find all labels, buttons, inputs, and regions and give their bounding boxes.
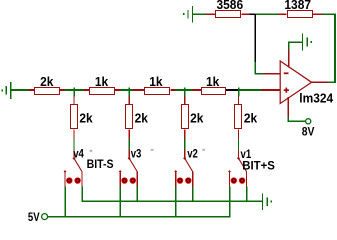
- resistor 1k (third): [201, 87, 226, 95]
- artifact mark near v3: [151, 149, 154, 151]
- ground symbol (at op-amp V+): [302, 34, 312, 51]
- artifact mark near v2: [202, 149, 205, 151]
- switch v1 contact dots: [231, 177, 246, 183]
- svg-text:1k: 1k: [95, 75, 108, 90]
- wire R-1k3 to node D (black): [226, 89, 239, 91]
- svg-text:1k: 1k: [149, 75, 162, 90]
- op-amp minus sign: [284, 72, 289, 74]
- svg-text:BIT-S: BIT-S: [87, 158, 114, 171]
- svg-text:5V: 5V: [28, 211, 40, 223]
- resistor 2k (branch v3): [125, 104, 133, 129]
- wire switch v4 left post down: [64, 187, 66, 218]
- junction node C (green stub): [184, 87, 186, 96]
- wire feedback to op-amp output: [312, 81, 336, 83]
- wire to op-amp inverting input: [255, 73, 280, 75]
- junction node B (green stub): [128, 87, 130, 96]
- switch v3 lever and pivot: [119, 157, 137, 173]
- wire switch v3 right post down: [136, 187, 138, 202]
- switch v4 contact dots: [66, 177, 81, 183]
- wire node F down (inverting input net): [254, 14, 256, 74]
- wire switch v2 right post down: [192, 187, 194, 202]
- resistor 2k (series): [34, 87, 60, 95]
- resistor 1k (first): [89, 87, 115, 95]
- wire switch v3 left post down: [119, 187, 121, 218]
- resistor 2k (branch v4): [70, 104, 78, 129]
- op-amp U1 lm324 triangle: [280, 61, 311, 104]
- wire node F to R-1387: [255, 13, 287, 15]
- op-amp V- pin wire: [288, 97, 306, 122]
- wire ground to R-2k: [11, 89, 34, 91]
- wire node A down to branch resistor: [73, 97, 74, 105]
- switch v4 contact posts: [64, 172, 82, 187]
- wire R-3586 to node F: [241, 13, 255, 15]
- resistor 1387: [287, 10, 313, 18]
- artifact mark near v4: [90, 150, 93, 152]
- wire branch resistor to switch v4: [73, 129, 74, 157]
- switch v2 contact dots: [177, 177, 192, 183]
- wire switch v1 right post down: [246, 187, 248, 202]
- svg-text:3586: 3586: [216, 0, 243, 12]
- switch v2 contact posts: [175, 172, 193, 187]
- svg-text:2k: 2k: [40, 75, 53, 90]
- port 8V terminal circle: [306, 119, 311, 124]
- ground symbol (top left): [183, 6, 193, 23]
- wire ground to R-3586: [193, 13, 215, 15]
- wire branch resistor to switch v3: [129, 129, 130, 157]
- wire branch resistor to switch v1: [238, 129, 239, 157]
- wire branch resistor to switch v2: [184, 129, 185, 157]
- resistor 3586: [215, 10, 241, 18]
- wire R-1387 to feedback corner: [313, 13, 336, 15]
- svg-text:2k: 2k: [190, 111, 203, 126]
- svg-text:BIT+S: BIT+S: [242, 159, 275, 172]
- junction node A (green stub): [73, 87, 75, 96]
- switch v3 contact dots: [121, 177, 136, 183]
- svg-text:v4: v4: [73, 148, 84, 161]
- switch v1 lever and pivot: [228, 157, 246, 173]
- wire GND bus (right contacts): [81, 201, 262, 203]
- wire switch v4 right post down: [81, 187, 83, 202]
- svg-text:2k: 2k: [244, 111, 257, 126]
- svg-text:v2: v2: [187, 148, 198, 161]
- wire switch v2 left post down: [175, 187, 177, 218]
- switch v3 contact posts: [120, 172, 138, 187]
- junction node D (green stub): [238, 87, 240, 96]
- ground symbol (left of rail): [1, 82, 11, 99]
- svg-text:8V: 8V: [302, 126, 315, 139]
- wire R-2k to node A: [60, 89, 89, 91]
- wire node C down to branch resistor: [184, 97, 185, 105]
- resistor 1k (second): [144, 87, 170, 95]
- resistor 2k (branch v1): [234, 104, 242, 129]
- switch v1 contact posts: [229, 172, 247, 187]
- svg-text:v3: v3: [131, 148, 142, 161]
- wire node D down to branch resistor: [238, 97, 239, 105]
- resistor 2k (branch v2): [181, 104, 189, 129]
- wire ladder to op-amp non-inverting input: [239, 89, 280, 91]
- svg-text:1k: 1k: [206, 75, 219, 90]
- wire 5V bus: [48, 216, 230, 218]
- op-amp plus sign: [284, 88, 289, 93]
- svg-text:lm324: lm324: [299, 91, 333, 106]
- wire R-1k2 to node C: [171, 89, 202, 91]
- wire R-1k1 to node B: [115, 89, 145, 91]
- svg-text:2k: 2k: [135, 111, 148, 126]
- op-amp V+ pin wire: [288, 41, 302, 67]
- svg-text:1387: 1387: [284, 0, 311, 12]
- wire feedback right vertical: [334, 13, 336, 83]
- ground symbol (bottom right): [262, 193, 272, 210]
- wire node B down to branch resistor: [129, 97, 130, 105]
- svg-text:2k: 2k: [79, 111, 92, 126]
- port 5V terminal circle: [42, 214, 48, 220]
- switch v2 lever and pivot: [174, 157, 192, 173]
- switch v4 lever and pivot: [64, 157, 82, 173]
- wire switch v1 left post down: [229, 187, 231, 218]
